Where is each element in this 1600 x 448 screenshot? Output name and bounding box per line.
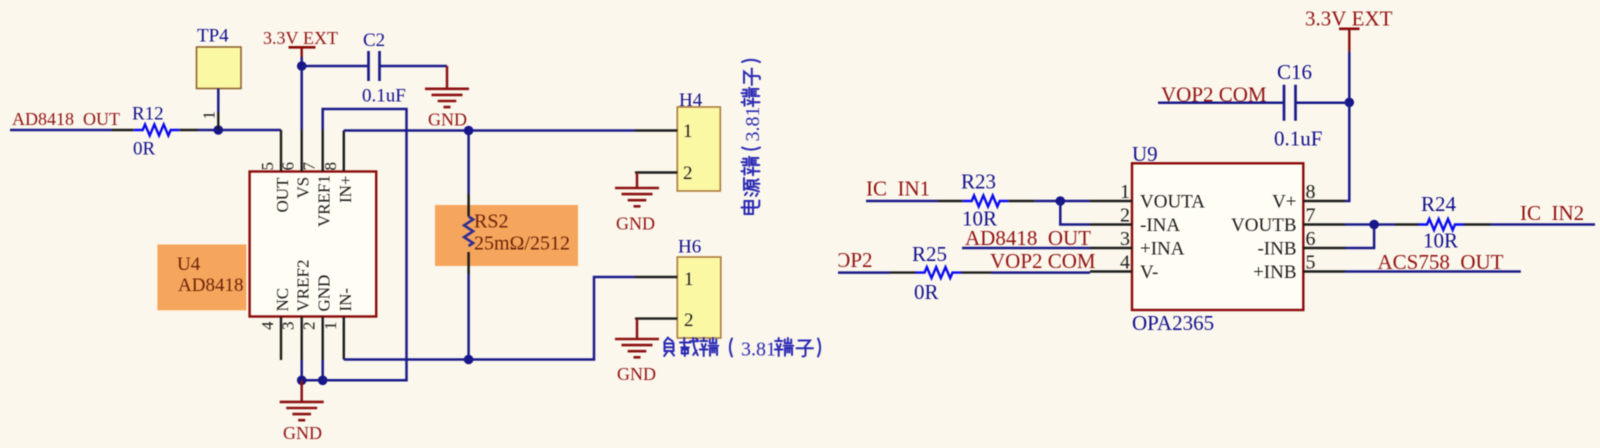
svg-text:25mΩ/2512: 25mΩ/2512 <box>474 233 570 255</box>
svg-text:ACS758 OUT: ACS758 OUT <box>1378 250 1504 274</box>
wire VOP2 <box>838 271 890 274</box>
svg-text:1: 1 <box>684 269 694 290</box>
svg-text:R25: R25 <box>912 242 947 266</box>
ground stub (U4) <box>300 380 303 402</box>
pin H6.2 <box>635 317 677 319</box>
svg-text:AD8418: AD8418 <box>178 275 243 296</box>
svg-text:VOUTA: VOUTA <box>1140 192 1205 213</box>
connector H6 <box>677 257 721 338</box>
wire C16 to junction <box>1296 102 1350 105</box>
resistor R23 lead right <box>1009 200 1035 202</box>
svg-text:5: 5 <box>1306 252 1316 274</box>
wire VREF2/GND to ground <box>302 360 323 380</box>
pin U9.1 VOUTA <box>1090 200 1132 202</box>
wire R25 to pin4 <box>991 271 1090 274</box>
svg-text:4: 4 <box>1120 252 1130 274</box>
svg-text:R23: R23 <box>961 170 996 194</box>
wire junction to C2 <box>302 65 369 68</box>
svg-text:U4: U4 <box>177 254 201 275</box>
svg-text:OUT: OUT <box>273 177 292 213</box>
pin U4.7 VREF1 <box>322 130 324 172</box>
svg-text:GND: GND <box>315 275 334 312</box>
wire IC_IN1 <box>866 200 938 203</box>
power stub (right) <box>1348 29 1350 52</box>
svg-text:R24: R24 <box>1421 192 1457 216</box>
wire RS2 bottom to H6 pin1 <box>469 277 635 360</box>
resistor R12 <box>134 125 180 136</box>
svg-text:GND: GND <box>428 110 467 130</box>
power bar 3.3V_EXT left <box>289 46 316 49</box>
ground stub (C2) <box>446 66 449 89</box>
svg-text:VOUTB: VOUTB <box>1231 215 1296 236</box>
test point TP4 <box>197 47 242 89</box>
svg-text:IN-: IN- <box>336 288 355 312</box>
ground stub (H6) <box>636 319 639 339</box>
pin U9.4 V- <box>1090 270 1132 272</box>
svg-text:0R: 0R <box>914 280 939 304</box>
wire junction down to pin8 <box>1345 102 1349 201</box>
node junction TP4 <box>214 125 224 135</box>
resistor R24 <box>1418 219 1464 230</box>
svg-text:5: 5 <box>258 162 277 171</box>
wire pin7 to R24 <box>1345 223 1395 226</box>
orange value box RS2 <box>435 205 578 266</box>
node junction R23/pin1/pin2 <box>1056 196 1066 206</box>
svg-text:AD8418 OUT: AD8418 OUT <box>965 226 1091 250</box>
pin U9.6 -INB <box>1303 247 1345 249</box>
resistor RS2 (vertical) <box>464 217 473 246</box>
pin U4.4 NC <box>280 317 282 360</box>
svg-text:1: 1 <box>200 111 219 120</box>
svg-text:AD8418 OUT: AD8418 OUT <box>12 109 120 129</box>
svg-text:2: 2 <box>684 310 694 331</box>
svg-text:8: 8 <box>321 162 340 171</box>
wire TP4 to pin <box>217 89 220 113</box>
pin U9.8 V+ <box>1303 200 1345 202</box>
pin U9.3 +INA <box>1090 247 1132 249</box>
svg-text:VOP2 COM: VOP2 COM <box>990 249 1096 273</box>
orange designator box U4 <box>157 245 246 311</box>
node junction RS2 bottom <box>464 355 474 365</box>
wire AD8418_OUT net <box>10 129 112 132</box>
wire R23 to pin1 <box>1035 200 1090 203</box>
svg-text:3.3V EXT: 3.3V EXT <box>1305 7 1393 31</box>
svg-text:V-: V- <box>1140 262 1158 283</box>
IC U9 body <box>1132 163 1303 310</box>
pin RS2 top <box>467 194 470 217</box>
svg-text:3.3V EXT: 3.3V EXT <box>263 28 338 48</box>
resistor R25 lead right <box>962 271 992 273</box>
wire 3.3V to junction <box>300 57 303 66</box>
svg-text:0R: 0R <box>133 139 156 160</box>
node junction RS2 top <box>464 126 474 136</box>
wire IN+ to H4/RS2 <box>344 129 635 132</box>
svg-text:C2: C2 <box>363 30 385 51</box>
resistor R23 lead left <box>938 200 963 202</box>
power bar 3.3V_EXT right <box>1339 27 1360 30</box>
ground symbol (C2) <box>425 89 469 107</box>
wire C2 to GND <box>380 65 448 68</box>
svg-text:IN+: IN+ <box>336 175 355 203</box>
svg-text:H6: H6 <box>678 237 701 258</box>
svg-text:3.81: 3.81 <box>742 107 764 142</box>
svg-text:3: 3 <box>279 322 298 331</box>
svg-text:-INA: -INA <box>1140 215 1180 236</box>
wire AD8418_OUT to pin3 <box>962 247 1090 250</box>
svg-text:GND: GND <box>617 364 656 384</box>
connector H4 <box>677 107 720 191</box>
svg-text:2: 2 <box>300 322 319 331</box>
node junction C16/V+ <box>1345 98 1355 108</box>
svg-text:7: 7 <box>300 162 319 171</box>
pin H4.1 <box>635 129 677 131</box>
resistor R23 <box>963 196 1009 207</box>
pin U4.8 IN+ <box>343 131 345 172</box>
svg-text:0.1uF: 0.1uF <box>362 86 406 107</box>
svg-text:+INA: +INA <box>1140 239 1185 260</box>
pin U9.7 VOUTB <box>1303 223 1345 225</box>
wire RS2 bottom lead <box>467 274 470 360</box>
wire junction down to pin6 <box>300 66 303 130</box>
wire IN- to RS2 bottom <box>344 358 469 361</box>
pin U4.1 IN- <box>343 317 345 360</box>
wire pin6 up to junction <box>1345 225 1374 249</box>
node junction GND pin <box>318 376 328 386</box>
pin U4.5 OUT <box>280 130 282 172</box>
ground symbol (H4) <box>615 188 659 206</box>
svg-text:IC IN2: IC IN2 <box>1520 201 1584 225</box>
svg-text:VREF1: VREF1 <box>315 175 334 227</box>
ground symbol (H6) <box>615 339 659 357</box>
svg-text:1: 1 <box>683 121 693 142</box>
resistor R25 lead left <box>890 271 916 273</box>
svg-text:7: 7 <box>1306 205 1316 227</box>
svg-text:6: 6 <box>279 162 298 171</box>
svg-text:1: 1 <box>321 322 340 331</box>
svg-text:6: 6 <box>1306 228 1316 250</box>
svg-text:4: 4 <box>258 321 277 330</box>
svg-text:VREF2: VREF2 <box>294 260 313 312</box>
pin U9.5 +INB <box>1303 270 1345 272</box>
resistor R12 lead left <box>112 129 134 131</box>
svg-text:2: 2 <box>683 163 693 184</box>
wire 3.3V down to junction <box>1348 52 1351 103</box>
ground stub (H4) <box>636 173 639 189</box>
vertical note 电源端（3.81端子） <box>742 60 765 214</box>
resistor R24 lead left <box>1395 223 1418 225</box>
svg-text:10R: 10R <box>1423 229 1458 253</box>
svg-text:3.81: 3.81 <box>741 339 776 361</box>
svg-text:1: 1 <box>1120 181 1130 203</box>
pin U4.2 GND <box>322 317 324 360</box>
pin U4.3 VREF2 <box>301 317 303 360</box>
ground symbol (U4) <box>280 402 324 420</box>
power stub <box>301 47 303 57</box>
wire R12 to U4 pin5 <box>198 129 281 132</box>
svg-text:NC: NC <box>273 288 292 312</box>
pin H6.1 <box>635 276 677 278</box>
svg-text:TP4: TP4 <box>197 26 229 47</box>
pin RS2 bottom <box>467 252 470 274</box>
wire RS2 top lead <box>467 131 470 195</box>
IC U4 body <box>250 172 377 317</box>
node junction VREF2 <box>297 376 307 386</box>
resistor R12 lead right <box>180 129 198 131</box>
pin U9.2 -INA <box>1090 223 1132 225</box>
svg-text:-INB: -INB <box>1257 239 1296 260</box>
node junction pin6/pin7 <box>1369 220 1379 230</box>
svg-text:R12: R12 <box>132 104 164 125</box>
resistor R25 <box>916 267 962 278</box>
svg-text:RS2: RS2 <box>474 211 508 233</box>
wire junction down to pin2 <box>1060 201 1090 225</box>
wire VREF1 net: pin7 up, right, down, to VREF2 junction <box>323 109 407 380</box>
pin U4.6 VS <box>301 130 303 172</box>
svg-text:V+: V+ <box>1272 192 1296 213</box>
wire pin5 ACS758_OUT <box>1345 270 1521 273</box>
wire VOP2_COM to C16 <box>1158 102 1284 105</box>
capacitor C16 <box>1284 85 1296 121</box>
pin H4.2 <box>635 171 677 173</box>
svg-text:U9: U9 <box>1132 142 1158 166</box>
svg-text:OPA2365: OPA2365 <box>1132 311 1214 335</box>
resistor R24 lead right <box>1464 223 1490 225</box>
wire R24 to IC_IN2 <box>1490 223 1595 226</box>
horizontal note 负载端（3.81端子） <box>664 338 820 361</box>
svg-text:8: 8 <box>1306 181 1316 203</box>
clip mask over VOP2 <box>816 248 839 271</box>
svg-text:GND: GND <box>283 423 322 443</box>
svg-text:0.1uF: 0.1uF <box>1274 127 1322 151</box>
svg-text:GND: GND <box>616 214 655 234</box>
svg-text:3: 3 <box>1120 228 1130 250</box>
svg-text:VS: VS <box>294 177 313 199</box>
capacitor C2 <box>369 51 380 81</box>
node junction 3.3V/C2/VS <box>297 61 307 71</box>
svg-text:2: 2 <box>1120 205 1130 227</box>
svg-text:+INB: +INB <box>1253 262 1296 283</box>
pin TP4 1 <box>217 112 219 130</box>
svg-text:C16: C16 <box>1277 60 1312 84</box>
svg-text:IC IN1: IC IN1 <box>866 177 930 201</box>
